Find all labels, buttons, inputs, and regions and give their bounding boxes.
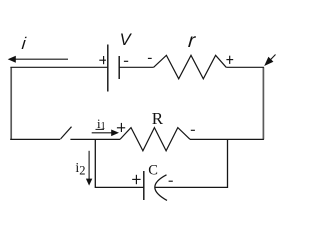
svg-text:i2: i2 <box>75 161 85 177</box>
svg-text:i1: i1 <box>97 116 106 132</box>
svg-text:V: V <box>120 31 133 49</box>
svg-text:i: i <box>21 34 28 53</box>
svg-text:C: C <box>148 163 158 179</box>
svg-text:R: R <box>152 109 164 128</box>
svg-text:r: r <box>187 30 197 52</box>
